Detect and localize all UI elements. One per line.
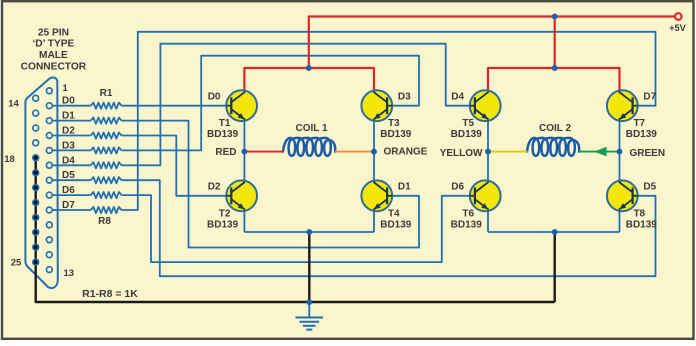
inductor COIL 2: [527, 138, 579, 156]
terminal +5V: [675, 13, 682, 20]
svg-text:YELLOW: YELLOW: [440, 148, 483, 159]
svg-text:T3: T3: [388, 118, 400, 129]
svg-text:T6: T6: [462, 208, 474, 219]
wire bridge1-right column: emitter of top transistor to coil node to collector of bottom transistor: [373, 121, 375, 180]
transistor T6 (BD139): [470, 180, 501, 211]
wire D0 route: resistor R1 to T1 base: [122, 105, 227, 107]
svg-text:T5: T5: [462, 118, 474, 129]
svg-text:BD139: BD139: [626, 129, 658, 140]
connector pin 15: [33, 110, 39, 116]
transistor T5 (BD139): [470, 90, 501, 121]
wire D4 from connector pin 6 to resistor R5: [52, 164, 91, 166]
wire D5 from connector pin 7 to resistor R6: [52, 179, 91, 181]
svg-text:BD139: BD139: [207, 219, 239, 230]
ground symbol: [296, 302, 324, 330]
wire +5V main rail: [309, 17, 675, 69]
svg-text:D3: D3: [398, 92, 411, 103]
svg-text:CONNECTOR: CONNECTOR: [21, 61, 87, 72]
wire bridge1-left column: bottom transistor emitter to ground rail: [243, 211, 245, 232]
junction ground bus at ground symbol: [306, 299, 312, 305]
connector pin 3: [46, 118, 52, 124]
wire D6 from connector pin 8 to resistor R7: [52, 194, 91, 196]
wire bridge1-left column: emitter of top transistor to coil node to collector of bottom transistor: [243, 121, 245, 180]
wire ground drop from bridge1 rail to bottom bus: [308, 232, 310, 302]
junction +5V main rail: [552, 14, 558, 20]
svg-text:14: 14: [8, 99, 19, 110]
wire D1 route: resistor R2 to T4 base: [122, 121, 420, 248]
svg-text:BD139: BD139: [380, 129, 412, 140]
junction +5V bridge1 bar: [306, 65, 312, 71]
connector pin 19: [33, 170, 39, 176]
svg-text:BD139: BD139: [451, 219, 483, 230]
svg-text:D4: D4: [62, 155, 75, 166]
transistor T7 (BD139): [607, 90, 638, 121]
wire D5 route: resistor R6 to T8 base: [122, 180, 656, 276]
wire D1 from connector pin 3 to resistor R2: [52, 120, 91, 122]
connector pin 7: [46, 177, 52, 183]
svg-text:R1-R8 = 1K: R1-R8 = 1K: [82, 288, 138, 300]
wire bridge2-right column: bottom transistor emitter to ground rail: [619, 211, 621, 232]
connector title text: [21, 27, 87, 72]
wire D3 from connector pin 5 to resistor R4: [52, 149, 91, 151]
svg-text:D0: D0: [208, 92, 221, 103]
wire D7 from connector pin 9 to resistor R8: [52, 209, 91, 211]
junction YELLOW node: [485, 149, 491, 155]
connector pin 16: [33, 125, 39, 131]
wire bridge2-left column: bottom transistor emitter to ground rail: [487, 211, 489, 232]
svg-text:25 PIN: 25 PIN: [38, 27, 69, 38]
wire D7 route: resistor R8 to T7 base: [122, 32, 656, 210]
svg-text:D6: D6: [451, 182, 464, 193]
wire D0 from connector pin 2 to resistor R1: [52, 105, 91, 107]
wire D3 route: resistor R4 to T3 base: [122, 56, 420, 151]
connector pin 24: [33, 244, 39, 250]
svg-text:R1: R1: [100, 88, 113, 99]
svg-text:D1: D1: [398, 182, 411, 193]
connector pin 9: [46, 207, 52, 213]
svg-text:D3: D3: [62, 140, 75, 151]
connector pin 10: [46, 222, 52, 228]
wire D2 route: resistor R3 to T2 base: [122, 136, 227, 196]
svg-text:D4: D4: [451, 92, 464, 103]
svg-text:13: 13: [64, 268, 75, 279]
transistor T4 (BD139): [361, 180, 392, 211]
wire bridge2-right column: emitter of top transistor to coil node to collector of bottom transistor: [619, 121, 621, 180]
connector pin 1: [46, 88, 52, 94]
wire ORANGE motor lead: [335, 151, 374, 153]
connector pin 4: [46, 133, 52, 139]
wire D4 route: resistor R5 to T5 base: [122, 44, 470, 166]
connector pin 2: [46, 103, 52, 109]
svg-text:D7: D7: [643, 92, 656, 103]
wire bridge2 +5V bar to T5 and T7 collectors: [488, 68, 620, 90]
svg-text:BD139: BD139: [380, 219, 412, 230]
wire YELLOW motor lead: [488, 151, 528, 153]
wire bridge1-right column: bottom transistor emitter to ground rail: [373, 211, 375, 232]
resistor R1: [91, 103, 122, 109]
svg-text:R8: R8: [98, 216, 111, 227]
svg-text:COIL 2: COIL 2: [539, 123, 571, 134]
wire ground drop from bridge2 rail to bottom bus: [554, 232, 556, 302]
svg-text:MALE: MALE: [39, 50, 68, 61]
connector J1 25-pin D-type shell: [25, 77, 57, 288]
connector pin 8: [46, 192, 52, 198]
svg-text:GREEN: GREEN: [630, 148, 666, 159]
connector pin 18: [33, 155, 39, 161]
inductor COIL 1: [283, 138, 335, 156]
wire bridge2 ground rail: [488, 231, 620, 233]
connector pin 20: [33, 185, 39, 191]
svg-text:BD139: BD139: [207, 129, 239, 140]
svg-text:D6: D6: [62, 185, 75, 196]
resistor R8: [91, 207, 122, 213]
junction bridge1 rail to ground: [306, 229, 312, 235]
resistor R6: [91, 177, 122, 183]
connector pin 25: [33, 259, 39, 265]
connector pin 22: [33, 215, 39, 221]
transistor T2 (BD139): [226, 180, 257, 211]
connector pin 12: [46, 252, 52, 258]
wire RED motor lead: [244, 151, 283, 153]
connector pin 13: [46, 267, 52, 273]
svg-text:BD139: BD139: [626, 219, 658, 230]
wire +5V feed to bridge2: [554, 17, 556, 69]
connector pin 11: [46, 237, 52, 243]
wire ground from connector pins 18-25 down and along bottom bus: [36, 158, 555, 302]
svg-text:COIL 1: COIL 1: [295, 123, 327, 134]
svg-text:D2: D2: [62, 126, 75, 137]
transistor T8 (BD139): [607, 180, 638, 211]
svg-text:T1: T1: [219, 118, 231, 129]
junction GREEN node: [617, 149, 623, 155]
connector pin 21: [33, 200, 39, 206]
svg-text:‘D’ TYPE: ‘D’ TYPE: [32, 38, 74, 49]
svg-text:D7: D7: [62, 200, 75, 211]
svg-text:D5: D5: [62, 170, 75, 181]
wire bridge2-left column: emitter of top transistor to coil node to collector of bottom transistor: [487, 121, 489, 180]
connector pin 14: [33, 95, 39, 101]
connector pin 23: [33, 229, 39, 235]
connector pin 6: [46, 162, 52, 168]
wire bridge1 ground rail: [244, 231, 374, 233]
svg-text:T7: T7: [633, 118, 645, 129]
wire bridge1 +5V bar to T1 and T3 collectors: [244, 68, 374, 90]
resistor R5: [91, 162, 122, 168]
connector pin 5: [46, 148, 52, 154]
svg-text:T4: T4: [388, 208, 400, 219]
connector pin 17: [33, 140, 39, 146]
resistor R2: [91, 118, 122, 124]
svg-text:BD139: BD139: [451, 129, 483, 140]
wire D2 from connector pin 4 to resistor R3: [52, 135, 91, 137]
transistor T3 (BD139): [361, 90, 392, 121]
svg-text:D1: D1: [62, 111, 75, 122]
svg-text:D2: D2: [208, 182, 221, 193]
resistor R7: [91, 192, 122, 198]
resistor R4: [91, 147, 122, 153]
svg-text:D5: D5: [643, 182, 656, 193]
svg-text:D0: D0: [62, 96, 75, 107]
transistor T1 (BD139): [226, 90, 257, 121]
svg-text:T8: T8: [633, 208, 645, 219]
svg-text:ORANGE: ORANGE: [384, 146, 428, 157]
junction ORANGE node: [371, 149, 377, 155]
svg-text:T2: T2: [219, 208, 231, 219]
junction RED node: [241, 149, 247, 155]
svg-text:18: 18: [4, 154, 15, 165]
svg-text:+5V: +5V: [669, 23, 686, 33]
junction bridge2 rail to ground: [552, 229, 558, 235]
wire D6 route: resistor R7 to T6 base: [122, 195, 470, 262]
wire GREEN motor lead: [579, 151, 620, 153]
svg-text:1: 1: [63, 83, 69, 94]
resistor R3: [91, 132, 122, 138]
svg-text:RED: RED: [215, 147, 236, 158]
junction +5V bridge2 bar: [552, 65, 558, 71]
svg-text:25: 25: [11, 258, 22, 269]
arrow on GREEN lead pointing to coil 2: [594, 147, 607, 157]
